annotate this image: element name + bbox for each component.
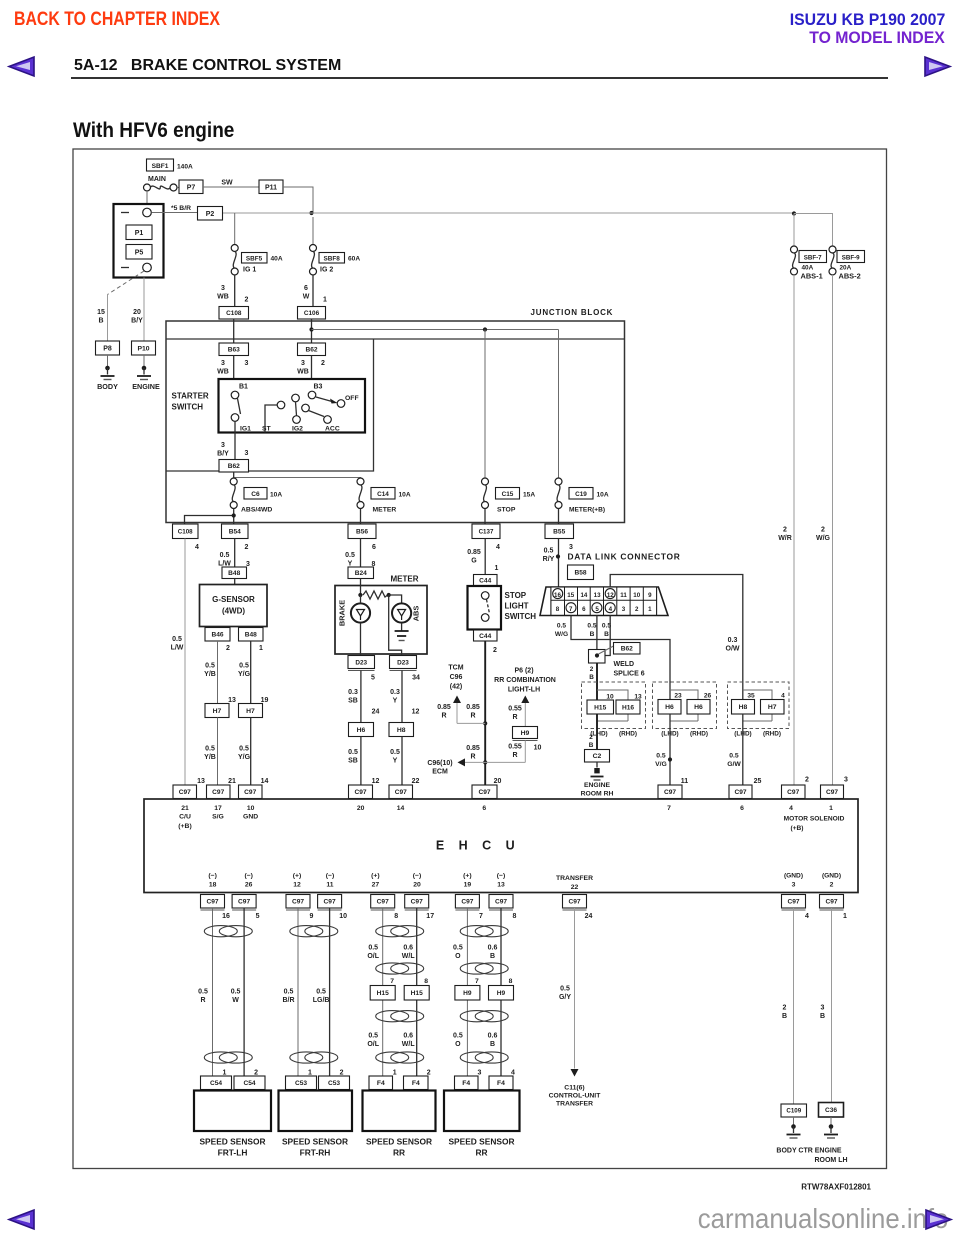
wire fuse to P7 xyxy=(177,187,179,189)
wire C36 to ground xyxy=(830,1117,832,1125)
svg-text:(+): (+) xyxy=(293,873,302,880)
junction dot TCM branch xyxy=(483,721,487,725)
DLC top row pin labels xyxy=(554,592,652,599)
svg-text:TRANSFER: TRANSFER xyxy=(556,875,593,882)
svg-text:SB: SB xyxy=(348,758,358,765)
label P6 (2) RR COMBINATION LIGHT-LH xyxy=(494,668,556,694)
svg-text:D23: D23 xyxy=(397,659,409,666)
svg-text:40A: 40A xyxy=(271,256,283,263)
svg-text:C137: C137 xyxy=(479,529,494,536)
resistor meter feed xyxy=(363,591,388,599)
EHCU bottom pin (-)11 xyxy=(326,873,335,889)
svg-text:O/L: O/L xyxy=(367,1041,379,1048)
svg-text:0.5: 0.5 xyxy=(729,753,739,760)
DLC pin 12 ring xyxy=(605,589,615,599)
ground ENGINE xyxy=(132,366,160,391)
svg-text:0.5: 0.5 xyxy=(239,746,249,753)
svg-text:F4: F4 xyxy=(412,1080,420,1087)
connector H6 xyxy=(349,723,374,737)
svg-text:Y/B: Y/B xyxy=(204,671,216,678)
wire C106 through block to B62 xyxy=(311,319,313,343)
svg-text:C97: C97 xyxy=(212,789,224,796)
svg-text:3: 3 xyxy=(477,1070,481,1077)
EHCU bottom pin (GND)3 xyxy=(784,873,803,889)
component STOP LIGHT SWITCH xyxy=(468,586,502,630)
svg-text:0.5: 0.5 xyxy=(560,986,570,993)
connector C97 col8 top xyxy=(729,785,752,801)
bus wire P2 to right side fuses xyxy=(223,212,795,214)
svg-text:C97: C97 xyxy=(461,899,473,906)
svg-text:C2: C2 xyxy=(593,753,602,760)
junction dot meter right node xyxy=(387,593,391,597)
junction dot DLC branch xyxy=(556,554,560,558)
svg-text:0.5: 0.5 xyxy=(656,753,666,760)
speed sensor RR-2 wiring xyxy=(453,908,515,1077)
junction block inner top rail xyxy=(166,338,625,340)
EHCU bottom pin (+)19 xyxy=(463,873,472,889)
connector C97 col9 top (W/R) xyxy=(782,777,810,801)
wire rail down to fuse C19 xyxy=(558,330,560,479)
connector C106 (top) xyxy=(298,307,326,320)
svg-text:2: 2 xyxy=(635,606,639,613)
svg-text:23: 23 xyxy=(674,693,682,700)
label SPEED SENSOR FRT-LH xyxy=(199,1137,265,1158)
svg-text:20: 20 xyxy=(133,309,141,316)
variant stub wires H6 xyxy=(670,690,698,721)
connector C44 (upper) xyxy=(474,575,498,586)
svg-text:C97: C97 xyxy=(395,789,407,796)
wire rail down to fuse C15 xyxy=(484,330,486,479)
wire C6 to B54 with branch to C108 xyxy=(185,509,234,525)
svg-text:0.85: 0.85 xyxy=(466,704,480,711)
wire B48 into G-sensor xyxy=(234,579,236,585)
svg-text:0.5: 0.5 xyxy=(453,1033,463,1040)
svg-text:ENGINE: ENGINE xyxy=(584,782,611,789)
variant box H6/H6 (LHD/RHD) xyxy=(653,682,717,729)
EHCU top pin 21 C/U (+B) xyxy=(178,805,191,830)
svg-text:0.6: 0.6 xyxy=(403,945,413,952)
svg-text:SPEED SENSOR: SPEED SENSOR xyxy=(448,1137,514,1147)
wire C14 to B56 xyxy=(360,509,362,525)
svg-text:21: 21 xyxy=(181,805,189,812)
svg-text:3: 3 xyxy=(221,360,225,367)
variant stub wires H8/H7 xyxy=(743,690,772,721)
svg-text:C97: C97 xyxy=(244,789,256,796)
speed sensor FRT-RH wiring xyxy=(282,908,343,1077)
svg-text:4: 4 xyxy=(781,693,785,700)
component SPEED SENSOR RR (2) xyxy=(444,1091,520,1132)
svg-text:8: 8 xyxy=(513,913,517,920)
svg-text:B58: B58 xyxy=(574,570,586,577)
svg-text:C97: C97 xyxy=(377,899,389,906)
svg-text:19: 19 xyxy=(464,882,472,889)
svg-text:0.5: 0.5 xyxy=(220,552,230,559)
label ABS/4WD xyxy=(241,507,272,514)
ground (body ctr right) xyxy=(824,1124,838,1138)
wire C109 to ground xyxy=(793,1117,795,1125)
wire C137 to C44 (0.85 G) xyxy=(467,539,498,575)
connector B55 xyxy=(545,524,574,539)
svg-text:W/R: W/R xyxy=(778,535,792,542)
svg-text:SPEED SENSOR: SPEED SENSOR xyxy=(199,1137,265,1147)
svg-text:ABS/4WD: ABS/4WD xyxy=(241,507,272,514)
svg-text:6: 6 xyxy=(304,285,308,292)
svg-text:0.55: 0.55 xyxy=(508,706,522,713)
fuse label SBF-9 xyxy=(837,251,865,263)
svg-text:1: 1 xyxy=(323,297,327,304)
EHCU bottom pin (+)27 xyxy=(371,873,380,889)
svg-text:18: 18 xyxy=(209,882,217,889)
svg-text:LIGHT-LH: LIGHT-LH xyxy=(508,687,540,694)
svg-text:C96(10): C96(10) xyxy=(427,760,452,767)
EHCU bottom pin (GND)2 xyxy=(822,873,841,889)
svg-text:2: 2 xyxy=(493,647,497,654)
connector C97 bottom col5 xyxy=(371,895,399,921)
svg-text:C97: C97 xyxy=(825,899,837,906)
svg-text:H6: H6 xyxy=(694,704,703,711)
watermark carmanualsonline.info xyxy=(697,1203,948,1235)
connector H8 xyxy=(389,723,414,737)
label 0.3 O/W xyxy=(726,637,740,653)
connector B46 xyxy=(205,628,230,642)
connector C97 bottom col4 xyxy=(318,895,347,921)
svg-text:B1: B1 xyxy=(239,384,248,391)
svg-text:BODY: BODY xyxy=(97,382,118,391)
svg-text:0.5: 0.5 xyxy=(284,989,294,996)
svg-text:9: 9 xyxy=(648,592,652,599)
fuse C14 xyxy=(357,478,364,509)
svg-text:S/G: S/G xyxy=(212,814,224,821)
connector F4 (RR1 left) xyxy=(369,1076,393,1090)
ground inside meter xyxy=(395,623,409,641)
label C96(10) ECM xyxy=(427,760,452,776)
svg-text:TCM: TCM xyxy=(448,665,463,672)
starter switch box xyxy=(219,379,366,433)
svg-text:7: 7 xyxy=(667,805,671,812)
svg-text:8: 8 xyxy=(509,978,513,985)
ground (body ctr left) xyxy=(787,1124,801,1138)
connector C97 bottom W/R xyxy=(782,895,810,921)
EHCU top pin 7 xyxy=(667,805,671,812)
svg-text:R/Y: R/Y xyxy=(543,556,555,563)
connector C137 xyxy=(472,524,500,539)
svg-text:B/Y: B/Y xyxy=(217,451,229,458)
EHCU top pin 14 xyxy=(397,805,405,812)
svg-text:C97: C97 xyxy=(787,789,799,796)
svg-text:7: 7 xyxy=(479,913,483,920)
svg-text:B46: B46 xyxy=(211,632,223,639)
svg-text:W: W xyxy=(232,997,239,1004)
connector H9 xyxy=(513,727,538,741)
arrow to ECM xyxy=(458,758,466,766)
svg-text:0.5: 0.5 xyxy=(557,623,566,630)
diagram border frame xyxy=(73,149,887,1169)
svg-text:SB: SB xyxy=(348,698,358,705)
svg-text:12: 12 xyxy=(412,709,420,716)
connector C108 (block bottom) xyxy=(173,524,199,539)
label STOP xyxy=(497,507,516,514)
svg-text:ENGINE: ENGINE xyxy=(132,382,160,391)
svg-text:B: B xyxy=(604,631,609,638)
svg-text:W/G: W/G xyxy=(555,631,568,638)
svg-text:C96: C96 xyxy=(450,674,463,681)
svg-text:4: 4 xyxy=(195,544,199,551)
svg-text:O: O xyxy=(455,1041,461,1048)
labels (LHD) (RHD) H8 xyxy=(734,731,781,738)
svg-text:(+): (+) xyxy=(463,873,472,880)
junction dot meter left node xyxy=(358,593,362,597)
connector F4 (RR2 right) xyxy=(489,1076,513,1090)
svg-text:B: B xyxy=(590,631,595,638)
svg-text:13: 13 xyxy=(594,592,601,599)
svg-text:8: 8 xyxy=(394,913,398,920)
svg-text:0.6: 0.6 xyxy=(488,1033,498,1040)
svg-text:10: 10 xyxy=(633,592,640,599)
component box METER xyxy=(335,586,427,655)
svg-text:B: B xyxy=(589,742,594,749)
EHCU top pin 17 S/G xyxy=(212,805,224,821)
svg-text:STARTER: STARTER xyxy=(172,392,209,401)
svg-text:25: 25 xyxy=(754,778,762,785)
svg-text:H7: H7 xyxy=(768,704,777,711)
svg-text:11: 11 xyxy=(620,592,627,599)
fuse SBF5 xyxy=(231,245,238,276)
svg-text:(−): (−) xyxy=(413,873,422,880)
svg-text:R: R xyxy=(470,713,475,720)
svg-text:(+B): (+B) xyxy=(178,823,191,830)
svg-text:26: 26 xyxy=(704,693,712,700)
connector C97 col6 top xyxy=(472,785,497,801)
svg-text:ABS-1: ABS-1 xyxy=(801,272,823,281)
fuse label SBF8 60A xyxy=(319,253,360,264)
connector C97 bottom col2 xyxy=(232,895,260,921)
svg-text:Y/G: Y/G xyxy=(238,671,251,678)
wire H6 to C97 pin12 (0.5 SB) xyxy=(348,737,379,786)
svg-text:SBF1: SBF1 xyxy=(152,163,169,170)
connector P1 xyxy=(126,225,152,240)
svg-text:C97: C97 xyxy=(787,899,799,906)
junction block outline xyxy=(166,321,625,523)
svg-text:24: 24 xyxy=(372,709,380,716)
svg-text:34: 34 xyxy=(412,675,420,682)
EHCU top pin 20 xyxy=(357,805,365,812)
connector C53 (left) xyxy=(286,1076,317,1090)
svg-text:SBF-9: SBF-9 xyxy=(842,255,860,262)
svg-text:0.5: 0.5 xyxy=(205,663,215,670)
link ISUZU KB P190 2007 xyxy=(789,10,945,30)
svg-text:G/W: G/W xyxy=(727,761,741,768)
svg-text:C36: C36 xyxy=(825,1107,837,1114)
svg-text:27: 27 xyxy=(372,882,380,889)
svg-text:CONTROL-UNIT: CONTROL-UNIT xyxy=(549,1093,602,1100)
connector F4 (RR2 left) xyxy=(455,1076,479,1090)
svg-text:DATA LINK CONNECTOR: DATA LINK CONNECTOR xyxy=(568,552,681,562)
connector B48 xyxy=(222,567,247,579)
fuse label SBF1 140A xyxy=(147,159,194,171)
wire B46 to H7 (0.5 Y/B) xyxy=(204,641,236,704)
page header 5A-12 BRAKE CONTROL SYSTEM xyxy=(74,57,341,75)
svg-text:1: 1 xyxy=(648,606,652,613)
svg-text:B63: B63 xyxy=(228,347,240,354)
svg-text:ABS-2: ABS-2 xyxy=(839,272,861,281)
svg-text:TRANSFER: TRANSFER xyxy=(556,1101,593,1108)
svg-text:4: 4 xyxy=(789,805,793,812)
svg-text:3: 3 xyxy=(245,360,249,367)
svg-text:SPEED SENSOR: SPEED SENSOR xyxy=(282,1137,348,1147)
svg-text:ROOM RH: ROOM RH xyxy=(581,791,614,798)
svg-text:BRAKE: BRAKE xyxy=(338,600,347,626)
EHCU top pins 4 / 1 MOTOR SOLENOID (+B) xyxy=(784,805,845,832)
svg-text:F4: F4 xyxy=(497,1080,505,1087)
wire SBF8 to C106 (6 W) xyxy=(303,275,327,307)
wire D23 to H8 (0.3 Y) xyxy=(390,671,419,723)
svg-text:Y/B: Y/B xyxy=(204,754,216,761)
label 20A ABS-2 xyxy=(839,265,861,281)
svg-text:2: 2 xyxy=(589,734,593,741)
svg-text:B54: B54 xyxy=(229,529,241,536)
svg-text:3: 3 xyxy=(221,285,225,292)
svg-text:11: 11 xyxy=(681,778,689,785)
svg-text:IG1: IG1 xyxy=(240,426,251,433)
svg-text:G: G xyxy=(471,558,477,565)
svg-text:B/Y: B/Y xyxy=(131,318,143,325)
svg-text:12: 12 xyxy=(372,778,380,785)
svg-text:17: 17 xyxy=(426,913,434,920)
ground ENGINE ROOM RH xyxy=(591,762,604,780)
svg-text:SPEED SENSOR: SPEED SENSOR xyxy=(366,1137,432,1147)
svg-text:0.5: 0.5 xyxy=(544,548,554,555)
svg-text:G-SENSOR: G-SENSOR xyxy=(212,595,255,604)
svg-text:W: W xyxy=(303,294,310,301)
svg-text:C97: C97 xyxy=(734,789,746,796)
DLC bottom row pin labels xyxy=(556,606,652,613)
svg-text:2: 2 xyxy=(830,882,834,889)
svg-text:0.55: 0.55 xyxy=(508,744,522,751)
svg-text:C19: C19 xyxy=(575,491,587,498)
connector P5 xyxy=(126,245,152,260)
fuse label C6 10A xyxy=(244,488,282,500)
svg-text:ECM: ECM xyxy=(432,769,448,776)
label IG 1 xyxy=(243,267,256,274)
branch wire RR combination to stop node xyxy=(485,761,525,763)
fuse SBF-7 xyxy=(791,246,798,275)
svg-text:0.3: 0.3 xyxy=(348,689,358,696)
bus wire to SBF-9 column xyxy=(794,214,833,247)
svg-text:24: 24 xyxy=(585,913,593,920)
svg-text:0.5: 0.5 xyxy=(453,945,463,952)
svg-text:H15: H15 xyxy=(377,990,389,997)
svg-text:1: 1 xyxy=(223,1070,227,1077)
svg-text:MOTOR SOLENOID: MOTOR SOLENOID xyxy=(784,816,845,823)
wire arrow to H9 (0.55 R) xyxy=(508,703,525,727)
junction dot below C6 xyxy=(232,513,236,517)
connector C97 bottom col8 xyxy=(489,895,517,921)
wire SBF-7 to C97 pin2 (2 W/R) xyxy=(778,275,794,785)
svg-text:O/W: O/W xyxy=(726,646,740,653)
svg-text:1: 1 xyxy=(259,645,263,652)
pins 23 / 26 above H6 xyxy=(674,693,711,700)
fuse C6 xyxy=(230,478,237,509)
junction dot right bus split xyxy=(792,211,796,215)
wire B54 to B48 (0.5 L/W) xyxy=(218,539,250,569)
svg-text:1: 1 xyxy=(495,565,499,572)
svg-text:GND: GND xyxy=(243,814,258,821)
connector H15 xyxy=(587,700,614,714)
labels (LHD) (RHD) H6 xyxy=(661,731,708,738)
svg-text:P11: P11 xyxy=(265,184,277,191)
svg-text:Y/G: Y/G xyxy=(238,754,251,761)
svg-text:H7: H7 xyxy=(246,708,255,715)
connector H6 (RHD) xyxy=(687,700,710,715)
svg-text:B48: B48 xyxy=(228,570,240,577)
svg-text:FRT-LH: FRT-LH xyxy=(218,1148,248,1158)
svg-text:C97: C97 xyxy=(568,899,580,906)
connector P8 xyxy=(96,341,120,355)
svg-text:3: 3 xyxy=(821,1005,825,1012)
svg-text:(+): (+) xyxy=(371,873,380,880)
svg-text:E H C U: E H C U xyxy=(436,839,520,853)
junction dot H6 merge xyxy=(668,757,672,761)
svg-text:B48: B48 xyxy=(245,632,257,639)
pins 35 / 4 above H8 H7 xyxy=(747,693,785,700)
wire H15 to C2 (2 B) xyxy=(589,714,597,750)
svg-text:C14: C14 xyxy=(377,491,389,498)
connector C97 col2 top xyxy=(207,785,231,801)
svg-text:SWITCH: SWITCH xyxy=(505,612,537,621)
svg-text:8: 8 xyxy=(424,978,428,985)
EHCU bottom pin (-)13 xyxy=(497,873,506,889)
component SPEED SENSOR FRT-RH xyxy=(279,1091,353,1132)
svg-text:C97: C97 xyxy=(324,899,336,906)
connector C97 bottom col7 xyxy=(455,895,483,921)
svg-text:L/W: L/W xyxy=(171,645,184,652)
connector D23 (right) xyxy=(390,656,417,671)
svg-text:20: 20 xyxy=(413,882,421,889)
svg-text:H8: H8 xyxy=(397,727,406,734)
svg-text:B: B xyxy=(820,1013,825,1020)
fuse label SBF-7 xyxy=(799,251,827,263)
EHCU bottom pin (+)12 xyxy=(293,873,302,889)
fuse SBF-9 xyxy=(829,246,836,275)
svg-text:C97: C97 xyxy=(179,789,191,796)
svg-text:15A: 15A xyxy=(523,492,535,499)
DLC pin 7 ring xyxy=(566,603,576,613)
svg-text:10: 10 xyxy=(534,745,542,752)
svg-text:1: 1 xyxy=(308,1070,312,1077)
variant box H15/H16 (LHD/RHD) xyxy=(582,682,646,729)
svg-text:40A: 40A xyxy=(802,265,814,272)
label 20 B/Y xyxy=(131,309,143,325)
svg-text:C44: C44 xyxy=(479,577,491,584)
svg-text:0.3: 0.3 xyxy=(728,637,738,644)
svg-text:(−): (−) xyxy=(326,873,335,880)
svg-text:RR: RR xyxy=(393,1148,405,1158)
label METER(+B) xyxy=(569,507,605,514)
svg-text:2: 2 xyxy=(245,544,249,551)
svg-text:3: 3 xyxy=(245,450,249,457)
svg-text:C53: C53 xyxy=(328,1080,340,1087)
connector B56 xyxy=(348,524,376,539)
svg-text:2: 2 xyxy=(783,527,787,534)
contact B1 xyxy=(231,384,248,399)
wire SBF-9 to C97 pin3 (2 W/G) xyxy=(816,275,833,785)
svg-text:15: 15 xyxy=(97,309,105,316)
svg-text:P6 (2): P6 (2) xyxy=(514,668,533,675)
svg-text:C15: C15 xyxy=(502,491,514,498)
wire C15 to C137 xyxy=(484,509,486,525)
wire bus to fuse SBF5 xyxy=(234,213,236,245)
connector C109 xyxy=(781,1104,807,1117)
